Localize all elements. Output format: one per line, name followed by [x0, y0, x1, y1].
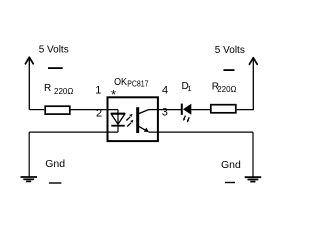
wire: bottom ground rail (left segment to opto LED cathode) [29, 131, 118, 133]
svg-text:220Ω: 220Ω [54, 87, 73, 96]
power arrow +5V (left) [25, 57, 33, 109]
wire: R2 to right 5V rail [237, 109, 254, 111]
optocoupler light coupling arrows [126, 114, 133, 127]
svg-text:1: 1 [188, 84, 192, 93]
svg-text:4: 4 [162, 85, 168, 97]
label R 220Ω (left resistor value) [44, 83, 73, 96]
LED D1 light emission arrows [183, 116, 189, 123]
svg-text:PC817: PC817 [127, 80, 149, 89]
net label underline (left 5 Volts) [48, 67, 63, 69]
svg-text:Gnd: Gnd [45, 158, 65, 170]
wire: left ground drop [28, 132, 30, 177]
label OK PC817 [114, 76, 149, 89]
wire: D1 anode to resistor R2 [191, 109, 210, 111]
ground (left) [21, 177, 38, 181]
svg-text:5 Volts: 5 Volts [39, 45, 69, 56]
wire: phototransistor collector out to LED D1 [149, 109, 182, 111]
optocoupler internal LED [111, 110, 125, 133]
svg-text:Gnd: Gnd [221, 159, 241, 171]
LED D1 [182, 104, 192, 115]
wire: left 5V rail to resistor R1 [29, 109, 44, 111]
svg-text:OK: OK [114, 76, 127, 88]
op-amp/optocoupler OK PC817 package box [108, 97, 158, 141]
svg-text:2: 2 [96, 107, 102, 119]
net label underline (right 5 Volts) [223, 69, 234, 71]
resistor R1 body [45, 106, 70, 114]
svg-text:R: R [44, 83, 51, 94]
power arrow +5V (right) [249, 58, 257, 110]
wire: right ground drop [252, 132, 254, 177]
net label underline (left Gnd) [49, 182, 62, 184]
svg-text:5 Volts: 5 Volts [215, 45, 245, 56]
svg-text:*: * [111, 87, 116, 102]
svg-text:220Ω: 220Ω [217, 85, 236, 94]
svg-text:1: 1 [95, 85, 101, 97]
wire: R1 to optocoupler pin (anode) [71, 109, 119, 111]
label R220Ω (right resistor value) [212, 81, 237, 94]
label D1 [182, 81, 192, 93]
wire: bottom ground rail (right segment from phototransistor emitter) [149, 131, 254, 133]
net label underline (right Gnd) [225, 182, 235, 184]
svg-text:3: 3 [162, 106, 168, 118]
optocoupler phototransistor [136, 107, 149, 133]
resistor R2 body [211, 105, 236, 113]
ground (right) [245, 177, 262, 181]
